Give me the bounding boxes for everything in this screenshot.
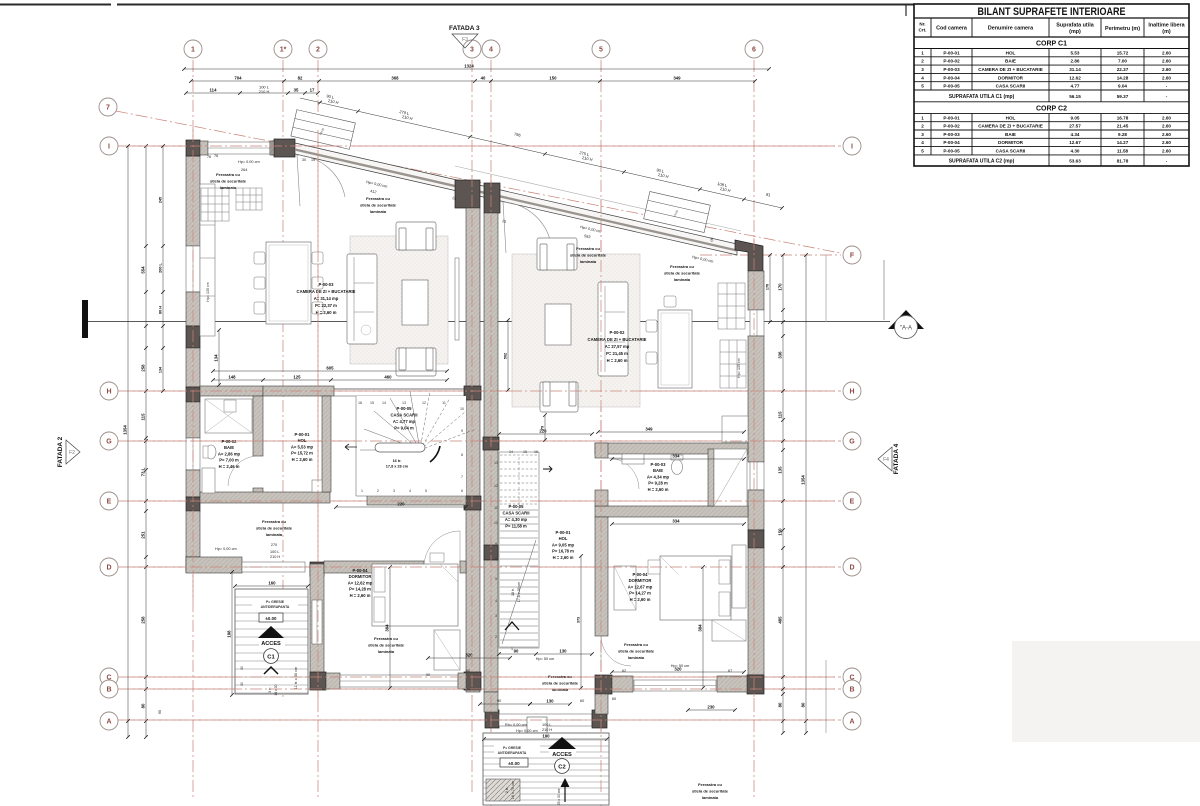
column mid wall low left (464, 672, 481, 690)
svg-text:DORMITOR: DORMITOR (629, 578, 652, 583)
svg-text:Fereastra cu: Fereastra cu (548, 674, 572, 679)
window bedroom left wall (312, 600, 322, 644)
svg-text:14.27: 14.27 (1117, 140, 1129, 145)
svg-text:sticla de securitate: sticla de securitate (542, 680, 579, 685)
svg-text:16 tr.: 16 tr. (393, 459, 402, 463)
svg-text:160: 160 (268, 581, 276, 586)
fridge C2 (722, 416, 748, 442)
dim bottom C2 (688, 709, 735, 711)
window right wall mid (750, 462, 764, 490)
svg-text:210 H: 210 H (259, 89, 270, 94)
porch C1 bottom arrow (264, 667, 278, 674)
svg-text:16 x 30: 16 x 30 (274, 684, 278, 695)
wall bath bottom C2 (595, 506, 748, 517)
svg-text:76: 76 (214, 154, 218, 158)
svg-text:CASA SCARII: CASA SCARII (390, 413, 417, 418)
vanity C2 (622, 454, 644, 464)
svg-text:Inaltime libera: Inaltime libera (1148, 23, 1185, 29)
svg-text:334: 334 (672, 454, 680, 459)
column mid junction left (455, 180, 480, 208)
wall bath mid pier C2 (708, 449, 714, 506)
svg-text:62: 62 (622, 669, 626, 673)
svg-text:1354: 1354 (123, 425, 128, 435)
svg-text:8: 8 (461, 453, 463, 457)
wall left exterior upper (186, 156, 200, 246)
svg-text:90: 90 (426, 673, 430, 677)
svg-text:Nr.: Nr. (919, 22, 925, 27)
wall bath door piece C1 (253, 488, 263, 500)
svg-text:190: 190 (542, 734, 550, 739)
svg-text:15.72: 15.72 (1117, 50, 1129, 55)
axis 1 vertical (192, 60, 194, 800)
wall stair bottom C1 (367, 495, 466, 505)
svg-text:73 L: 73 L (141, 467, 146, 476)
svg-text:1: 1 (921, 115, 924, 120)
svg-text:2: 2 (921, 124, 924, 129)
dim C2 room vertical (883, 260, 885, 320)
axis G horizontal (118, 440, 841, 442)
svg-text:Cod camera: Cod camera (936, 26, 968, 32)
grid bubble E right (843, 492, 861, 510)
svg-text:9.05: 9.05 (1071, 115, 1080, 120)
svg-text:P-00-05: P-00-05 (943, 149, 960, 154)
svg-text:laminata: laminata (628, 655, 645, 660)
svg-text:laminata: laminata (220, 185, 237, 190)
grid bubble A right (843, 712, 861, 730)
svg-text:368: 368 (391, 76, 399, 81)
svg-text:H = 2,46 m: H = 2,46 m (219, 464, 240, 469)
faint paper shading bottom right (1012, 641, 1200, 742)
svg-text:(mp): (mp) (1069, 29, 1081, 35)
svg-text:30: 30 (302, 158, 306, 162)
wall corridor left C2 (595, 490, 608, 506)
svg-text:Fereastra cu: Fereastra cu (262, 519, 286, 524)
coffee table C1 (402, 280, 428, 325)
svg-text:P-00-03: P-00-03 (943, 132, 960, 137)
svg-text:27.57: 27.57 (1069, 124, 1081, 129)
wall top right piece (272, 141, 276, 155)
door arc bath C2 (608, 458, 639, 489)
svg-text:16.78: 16.78 (1117, 115, 1129, 120)
sofa C2 (598, 282, 628, 376)
svg-text:Fereastra cu: Fereastra cu (216, 172, 240, 177)
dining chairs C1 left (254, 252, 265, 314)
table bilant suprafete interioare (914, 4, 1189, 166)
svg-text:114: 114 (210, 88, 218, 93)
svg-text:2.60: 2.60 (1162, 50, 1171, 55)
svg-text:210 H: 210 H (270, 555, 280, 559)
svg-text:Hp= 135 cm: Hp= 135 cm (737, 358, 741, 377)
grid bubble I left (100, 137, 118, 155)
svg-text:A: A (849, 719, 854, 726)
svg-text:BAIE: BAIE (224, 445, 234, 450)
svg-text:2.60: 2.60 (1162, 124, 1171, 129)
svg-text:H = 2,60 m: H = 2,60 m (350, 593, 371, 598)
svg-text:P-00-05: P-00-05 (943, 84, 960, 89)
svg-text:H = 2,60 m: H = 2,60 m (292, 457, 313, 462)
svg-text:9: 9 (495, 542, 497, 546)
svg-text:245: 245 (159, 197, 163, 203)
grid bubble 4 (482, 40, 500, 58)
axis B horizontal (118, 688, 841, 690)
column right wall (748, 530, 764, 548)
door arc C1 entrance (297, 155, 345, 197)
svg-text:1*: 1* (280, 47, 287, 54)
window right wall upper (750, 310, 764, 336)
svg-text:laminata: laminata (266, 532, 283, 537)
door C2 entry (527, 717, 547, 733)
svg-text:2.60: 2.60 (1162, 140, 1171, 145)
armchair C1 top (396, 222, 436, 250)
svg-text:P= GRESIE: P= GRESIE (503, 746, 522, 750)
porch C1 access arrow (258, 626, 284, 638)
dim chain right outer 1354 (805, 255, 807, 733)
svg-text:384: 384 (698, 624, 703, 632)
wardrobe C2 (614, 566, 636, 610)
dim mid vertical 502 (507, 320, 509, 390)
svg-text:CAMERA DE ZI + BUCATARIE: CAMERA DE ZI + BUCATARIE (297, 289, 356, 294)
porch C1 outline (235, 589, 308, 694)
svg-text:8: 8 (495, 557, 497, 561)
axis 3 vertical (471, 60, 473, 792)
grid bubble G left (100, 432, 118, 450)
wall bath left upper C2 (595, 443, 608, 458)
kitchen counter left C1 (200, 184, 215, 336)
svg-text:2.60: 2.60 (1162, 149, 1171, 154)
porch C2 hatched pad (486, 779, 520, 801)
grid bubble C right (843, 668, 861, 686)
svg-text:251: 251 (141, 531, 146, 539)
svg-text:258: 258 (141, 616, 146, 624)
svg-text:Hp= 0,00 cm: Hp= 0,00 cm (215, 547, 237, 551)
porch C2 dim 190 (484, 738, 607, 740)
svg-text:11: 11 (442, 401, 446, 405)
svg-text:2.60: 2.60 (1162, 75, 1171, 80)
nightstand C2 (648, 560, 660, 574)
door gap bedroom C1 (424, 531, 460, 567)
svg-text:3: 3 (921, 132, 924, 137)
stairs C1 step numbers (358, 401, 464, 493)
wall C2 entry right vertical (595, 694, 608, 714)
svg-text:4: 4 (921, 75, 924, 80)
svg-text:H: H (849, 389, 854, 396)
svg-text:F3: F3 (462, 37, 468, 43)
axis A horizontal (118, 719, 841, 721)
dim chain left outer 1354 (127, 146, 129, 737)
dining chairs C1 right (312, 252, 323, 314)
wall middle left strip (466, 208, 480, 692)
wall bottom C1 b (458, 673, 466, 689)
window bottom C2 (634, 680, 716, 691)
svg-text:Fereastra cu: Fereastra cu (366, 196, 390, 201)
dim interior C2 bedroom (612, 671, 744, 673)
window top wall (208, 142, 270, 154)
svg-text:SUPRAFATA UTILA C2 (mp): SUPRAFATA UTILA C2 (mp) (949, 158, 1015, 164)
grid bubble 5 (592, 40, 610, 58)
column porch top right (310, 562, 324, 576)
svg-text:Perimetru (m): Perimetru (m) (1105, 26, 1140, 32)
wall bath right C1 (253, 396, 263, 456)
svg-text:3 tr.: 3 tr. (268, 687, 272, 693)
svg-text:±0.00: ±0.00 (266, 616, 278, 621)
canopy slanted box near axis 2 (291, 110, 355, 150)
wall bottom C2 a (612, 676, 633, 692)
wall bottom C2 b (717, 676, 747, 692)
axis 7 diagonal (116, 111, 840, 253)
svg-text:554: 554 (141, 266, 146, 274)
svg-text:9.28: 9.28 (1118, 132, 1127, 137)
svg-text:16: 16 (358, 401, 362, 405)
svg-text:E: E (850, 499, 855, 506)
svg-text:170: 170 (766, 284, 770, 290)
svg-text:21.45: 21.45 (1117, 124, 1129, 129)
svg-text:CORP C2: CORP C2 (1036, 105, 1067, 112)
svg-text:220: 220 (397, 502, 405, 507)
svg-text:FATADA 2: FATADA 2 (57, 436, 64, 467)
svg-text:4.30: 4.30 (1071, 149, 1080, 154)
carpet living C1 (350, 236, 448, 364)
svg-text:P-00-04: P-00-04 (943, 140, 960, 145)
svg-text:Suprafata utila: Suprafata utila (1056, 23, 1094, 29)
wall C2 entry band right column (592, 710, 607, 728)
dining table C1 (266, 242, 311, 324)
svg-text:12: 12 (494, 484, 498, 488)
svg-text:12.67: 12.67 (1069, 140, 1081, 145)
svg-text:HOL: HOL (1006, 115, 1016, 120)
armchair C2 bottom (540, 382, 578, 412)
svg-text:10: 10 (494, 521, 498, 525)
dim interior C2 bath (598, 431, 744, 433)
svg-text:laminata: laminata (702, 795, 719, 800)
svg-text:P-00-03: P-00-03 (651, 462, 667, 467)
svg-text:25 x 30 cm: 25 x 30 cm (557, 789, 561, 806)
porch C2 decking lines (483, 739, 609, 741)
svg-text:P= 11,58 m: P= 11,58 m (505, 524, 527, 529)
svg-text:2.60: 2.60 (1162, 115, 1171, 120)
svg-text:sticla de securitate: sticla de securitate (664, 270, 701, 275)
porch C1 unit bubble (264, 649, 279, 664)
svg-text:4.34: 4.34 (1071, 132, 1080, 137)
svg-text:12.62: 12.62 (1069, 75, 1081, 80)
svg-text:sticla de securitate: sticla de securitate (368, 642, 405, 647)
svg-text:135: 135 (778, 466, 783, 474)
svg-text:198: 198 (227, 630, 232, 638)
svg-text:BILANT SUPRAFETE INTERIOARE: BILANT SUPRAFETE INTERIOARE (978, 6, 1126, 18)
nightstand C1 top (430, 553, 444, 562)
svg-text:CORP C1: CORP C1 (1036, 41, 1067, 48)
porch C2 outline (483, 733, 609, 805)
svg-text:Fereastra cu: Fereastra cu (624, 642, 648, 647)
svg-text:336: 336 (778, 351, 783, 359)
dining chairs C2 (646, 296, 676, 364)
tiny dims various (207, 155, 714, 701)
svg-text:A= 27,57 mp: A= 27,57 mp (605, 344, 630, 349)
svg-text:79: 79 (541, 426, 545, 430)
svg-text:14.28: 14.28 (1117, 75, 1129, 80)
column mid junction right (484, 183, 500, 213)
grid bubble E left (100, 492, 118, 510)
svg-text:5: 5 (921, 84, 924, 89)
svg-text:6: 6 (461, 489, 463, 493)
grid bubble I right (843, 137, 861, 155)
svg-text:Hp= 0.00 cm: Hp= 0.00 cm (238, 160, 260, 164)
svg-text:14: 14 (382, 401, 386, 405)
svg-text:30: 30 (240, 682, 244, 686)
door arc bedroom C2 (601, 636, 631, 666)
svg-text:CAMERA DE ZI + BUCATARIE: CAMERA DE ZI + BUCATARIE (588, 337, 647, 342)
porch C2 access arrow (548, 737, 576, 749)
canopy slanted box C2 (644, 191, 711, 232)
wall bath top C2 (595, 443, 748, 454)
svg-text:±0.00: ±0.00 (508, 761, 520, 766)
svg-text:P-00-04: P-00-04 (633, 572, 649, 577)
column left wall at E (186, 497, 200, 511)
svg-text:7.00: 7.00 (1118, 59, 1127, 64)
column left wall at H (186, 387, 200, 402)
svg-text:A= 2,86 mp: A= 2,86 mp (218, 451, 241, 456)
svg-text:4: 4 (495, 599, 497, 603)
stairs C2 step numbers (494, 450, 538, 651)
svg-text:sticla de securitate: sticla de securitate (692, 788, 729, 793)
svg-text:15: 15 (523, 450, 527, 454)
svg-text:17,8 x 28 cm: 17,8 x 28 cm (386, 465, 409, 469)
svg-text:SUPRAFATA UTILA C1 (mp): SUPRAFATA UTILA C1 (mp) (949, 94, 1015, 100)
svg-text:P= 9,04 m: P= 9,04 m (394, 426, 414, 431)
svg-text:320: 320 (674, 667, 682, 672)
dim chain right main (782, 255, 784, 733)
svg-text:"A-A: "A-A (900, 326, 912, 332)
svg-text:DORMITOR: DORMITOR (349, 574, 372, 579)
svg-text:115: 115 (778, 411, 783, 419)
svg-text:1: 1 (191, 47, 195, 54)
svg-text:P= GRESIE: P= GRESIE (266, 600, 285, 604)
axis F horizontal right (700, 254, 841, 256)
grid bubble B right (843, 680, 861, 698)
dim C2 left vertical (544, 415, 546, 440)
column left wall bottom corner (186, 557, 200, 572)
axis 1* vertical (282, 60, 284, 700)
toilet C2 (672, 460, 683, 475)
svg-text:ANTIDERAPANTA: ANTIDERAPANTA (498, 751, 527, 755)
svg-text:60: 60 (466, 669, 470, 673)
grid bubble A left (100, 712, 118, 730)
svg-text:P= 9,28 m: P= 9,28 m (648, 481, 668, 486)
wall bottom-left under D (186, 557, 242, 573)
svg-text:H = 2,60 m: H = 2,60 m (648, 487, 669, 492)
svg-text:P= 16,78 m: P= 16,78 m (552, 549, 574, 554)
bed C1 (372, 564, 458, 626)
svg-text:A= 5,53 mp: A= 5,53 mp (291, 444, 314, 449)
svg-text:H = 2,60 m: H = 2,60 m (553, 555, 574, 560)
svg-text:18 tr.: 18 tr. (511, 588, 515, 596)
grid bubble D left (100, 558, 118, 576)
svg-text:A= 4,34 mp: A= 4,34 mp (647, 474, 670, 479)
svg-text:FATADA 3: FATADA 3 (449, 25, 480, 32)
dim porch C1 (235, 585, 308, 587)
svg-text:D: D (849, 565, 854, 572)
svg-text:sticla de securitate: sticla de securitate (618, 648, 655, 653)
column top wall at 1* (274, 139, 295, 157)
svg-text:sticla de securitate: sticla de securitate (360, 202, 397, 207)
svg-text:90: 90 (514, 649, 519, 654)
svg-text:134: 134 (159, 366, 163, 373)
svg-text:59.37: 59.37 (1117, 94, 1129, 99)
axis 6 vertical (753, 60, 755, 800)
dim chain top axes (191, 80, 755, 82)
wall right exterior mid2 (748, 490, 764, 530)
svg-text:1324: 1324 (464, 64, 474, 69)
svg-text:laminata: laminata (378, 649, 395, 654)
svg-text:P-00-03: P-00-03 (943, 67, 960, 72)
svg-text:laminata: laminata (674, 277, 691, 282)
axis H horizontal (118, 390, 841, 392)
svg-text:502: 502 (504, 353, 508, 359)
svg-text:80: 80 (801, 702, 806, 707)
wall bath bottom C1 (200, 492, 330, 503)
svg-text:Fereastra cu: Fereastra cu (698, 782, 722, 787)
svg-text:15: 15 (370, 401, 374, 405)
wall right exterior upper (748, 271, 764, 310)
stairs C1 fan (356, 396, 466, 496)
grid bubble H left (100, 382, 118, 400)
axis C horizontal (118, 676, 841, 678)
svg-text:605: 605 (326, 366, 334, 371)
svg-text:17,8 x 28 cm: 17,8 x 28 cm (517, 582, 521, 603)
svg-text:CASA SCARII: CASA SCARII (996, 84, 1026, 89)
wardrobe C1 (434, 630, 460, 670)
column mid wall right at E (484, 545, 498, 560)
svg-text:BAIE: BAIE (1005, 132, 1016, 137)
dim chain left main (145, 146, 147, 737)
svg-text:F2: F2 (69, 450, 75, 456)
svg-text:Hp= 0,00 cm: Hp= 0,00 cm (516, 729, 538, 733)
svg-text:16 x 70 cm: 16 x 70 cm (511, 781, 515, 800)
svg-text:349: 349 (645, 427, 653, 432)
svg-text:A= 9,05 mp: A= 9,05 mp (552, 542, 575, 547)
svg-text:sticla de securitate: sticla de securitate (210, 178, 247, 183)
window above porch C1 (242, 562, 305, 572)
grid bubble 1* (274, 40, 292, 58)
porch C2 up arrow (564, 786, 566, 802)
dim chain top windows (186, 92, 318, 94)
dim interior stair top (336, 506, 466, 508)
column top-right corner C2 (735, 240, 763, 271)
svg-text:148: 148 (228, 375, 236, 380)
svg-text:14: 14 (509, 450, 513, 454)
svg-text:200 L: 200 L (159, 262, 163, 272)
column right wall bottom corner (747, 675, 764, 694)
svg-text:11 tr. x 30 cm: 11 tr. x 30 cm (294, 667, 298, 690)
svg-text:65: 65 (612, 697, 616, 701)
svg-text:134: 134 (214, 354, 219, 362)
svg-text:2: 2 (377, 489, 379, 493)
svg-text:2: 2 (316, 47, 320, 54)
door arc C2 entrance (503, 202, 551, 244)
svg-text:A= 4,77 mp: A= 4,77 mp (393, 419, 416, 424)
armchair C2 top (537, 238, 577, 270)
svg-text:HOL: HOL (1006, 50, 1016, 55)
svg-text:17: 17 (310, 88, 315, 93)
svg-text:E: E (107, 499, 112, 506)
tv cabinet C1 (455, 258, 459, 340)
svg-text:130: 130 (546, 699, 554, 704)
svg-text:I: I (108, 144, 110, 151)
svg-text:76: 76 (207, 155, 211, 159)
wall left exterior mid2 (186, 348, 200, 387)
svg-text:13: 13 (402, 401, 406, 405)
grid bubble D right (843, 558, 861, 576)
svg-text:sticla de securitate: sticla de securitate (256, 525, 293, 530)
